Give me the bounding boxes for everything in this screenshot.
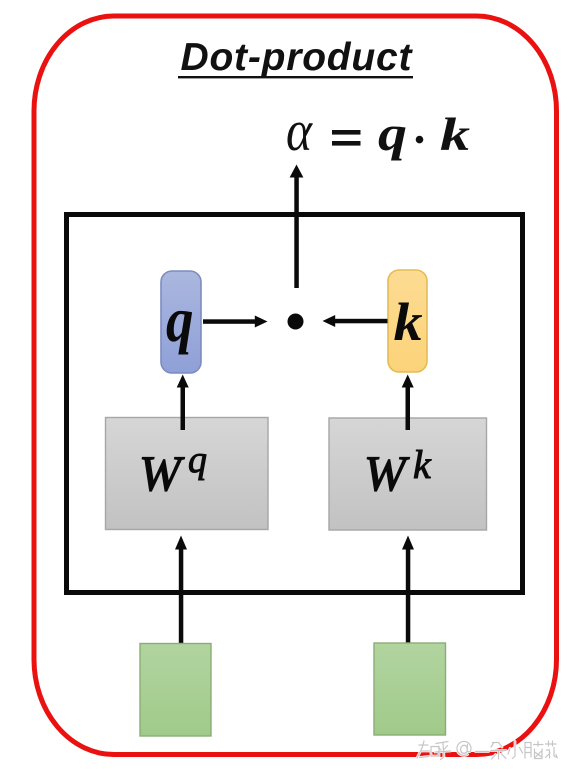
watermark white underlay xyxy=(417,741,557,760)
right green box xyxy=(374,643,446,735)
svg-text:k: k xyxy=(413,442,432,487)
svg-text:Dot-product: Dot-product xyxy=(181,36,414,79)
arrow W^q to q box xyxy=(177,375,189,431)
arrow q to dot xyxy=(203,316,268,328)
svg-text:α: α xyxy=(286,98,313,163)
k box (gold) xyxy=(388,270,427,372)
svg-text:W: W xyxy=(364,445,410,501)
arrow left green box to W^q xyxy=(175,536,187,646)
svg-text:W: W xyxy=(139,445,185,501)
q box (blue) xyxy=(161,271,201,373)
formula dot operator xyxy=(416,136,424,144)
W^k box (gray) xyxy=(329,418,487,530)
svg-text:k: k xyxy=(394,292,423,352)
arrow k to dot xyxy=(323,315,388,327)
W^q box (gray) xyxy=(106,418,269,530)
left green box xyxy=(140,644,211,737)
svg-text:q: q xyxy=(188,439,207,481)
svg-text:q: q xyxy=(166,284,194,355)
watermark 知乎 @一朵小脑花 xyxy=(417,741,557,760)
svg-text:q: q xyxy=(378,105,407,161)
inner black box xyxy=(67,215,523,593)
svg-text:k: k xyxy=(440,109,471,161)
arrow W^k to k box xyxy=(402,375,414,431)
title underline xyxy=(178,76,413,78)
arrow right green box to W^k xyxy=(402,536,414,646)
watermark gray strokes xyxy=(417,741,557,760)
formula equals sign xyxy=(332,130,361,146)
center dot node xyxy=(288,314,304,330)
arrow from dot up to formula xyxy=(290,165,304,289)
